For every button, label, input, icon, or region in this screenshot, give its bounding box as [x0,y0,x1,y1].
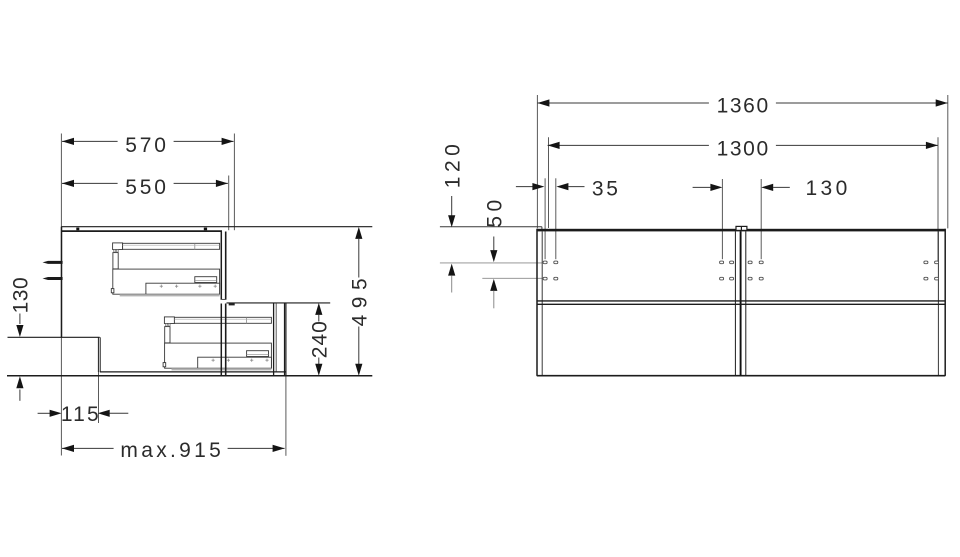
pulled drawer top line + 240 reference [227,302,331,304]
plinth notch horizontal + 130 reference [8,336,100,338]
svg-text:130: 130 [10,277,33,314]
svg-text:max.915: max.915 [120,439,224,462]
svg-text:1300: 1300 [717,138,770,161]
cabinet left side panel [61,227,63,338]
front cabinet right edge [944,229,946,376]
svg-text:550: 550 [125,176,168,199]
svg-text:130: 130 [805,177,850,200]
floor baseline [7,375,372,377]
dimension 120 [441,140,464,293]
extension line 570 right [233,134,235,231]
dimension 570 [62,132,234,157]
drawer gap line upper [537,300,946,302]
lower drawer runner (pulled out) [163,317,271,371]
svg-text:240: 240 [308,320,331,358]
dimension 550 [62,174,228,199]
extension line 1360 right [947,95,949,228]
center partition cap [736,226,747,230]
extension column 35 right [555,178,557,259]
svg-text:120: 120 [441,140,464,189]
front cabinet left inner line [541,231,543,375]
plinth notch vertical [98,337,100,372]
dimension 50 [483,195,506,308]
dimension 130 (plinth height) [10,277,33,401]
cabinet top thin line + 495 reference [61,226,372,228]
extension column 130 right [760,179,762,259]
dimension 130 (hole spacing) [693,177,851,200]
front cabinet left edge [536,229,538,376]
pulled drawer front panel [274,303,286,375]
dimension 35 [516,177,621,200]
extension line 1300 left [548,137,550,228]
extension line 1300 right [937,137,939,261]
svg-text:50: 50 [483,195,506,227]
svg-text:1360: 1360 [717,94,770,117]
extension column 35 left [544,178,546,259]
extension line 1360 left [536,95,538,228]
top fixing tick 2 [204,228,207,231]
shelf pin holes [543,261,939,280]
extension line 115 right [98,372,100,423]
svg-text:570: 570 [125,134,168,157]
wall mounting screw lower [43,277,63,280]
extension line 550 right [228,176,230,231]
dimension 1360 [537,94,947,118]
front cabinet bottom edge [537,375,946,377]
cabinet top panel thick line [61,230,222,232]
hole row 1 reference line [440,262,543,264]
top fixing tick 1 [76,228,79,231]
extension column 130 left [721,179,723,259]
120 top reference line [440,227,542,231]
svg-text:115: 115 [61,403,101,426]
drawer gap line lower [537,303,946,305]
wall mounting screw upper [43,261,63,264]
extension line left (570/550, cabinet left edge, continues to max.915) [60,134,62,456]
front cabinet top edge band [537,229,946,232]
front cabinet right inner line [937,231,939,375]
hole row 2 reference line [482,277,542,279]
svg-text:35: 35 [592,177,621,200]
lower front run of side panel [221,304,225,376]
dimension 495 [348,227,371,376]
dimension 115 [38,403,129,426]
upper drawer front panel edge-on [221,232,227,300]
dimension max.915 [62,439,285,462]
upper drawer runner [111,243,219,297]
extension line max.915 right [285,375,287,456]
cabinet and drawer bottom line [100,371,286,373]
center partition [735,231,745,375]
drawer anti-tip bracket [229,303,235,306]
svg-text:495: 495 [348,272,371,327]
dimension 240 [308,303,331,376]
dimension 1300 [548,136,938,161]
